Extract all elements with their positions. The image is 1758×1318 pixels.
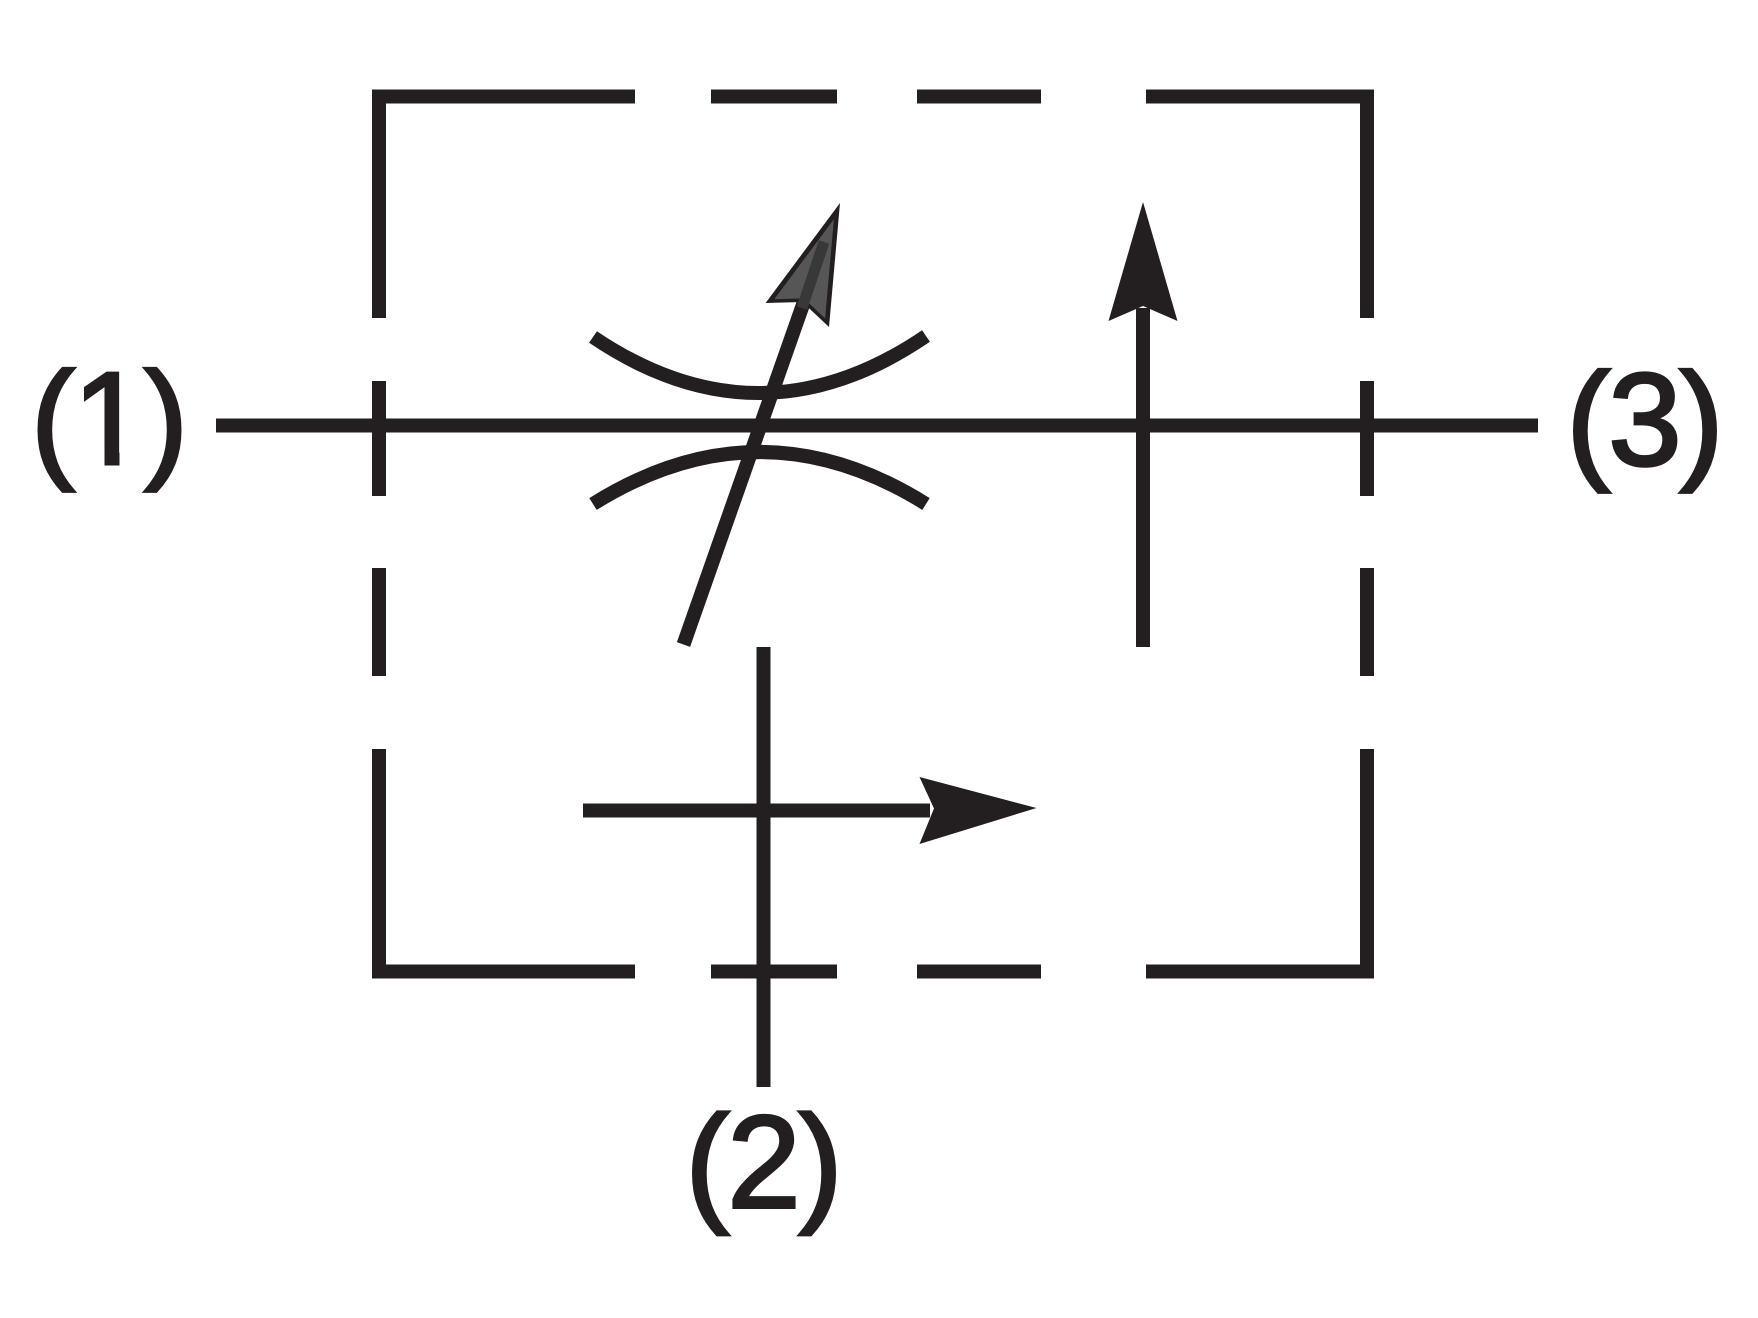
enclosure dashed box: top edge — [372, 90, 1374, 104]
enclosure dashed box: right edge — [1360, 90, 1374, 979]
flow arrow up: shaft — [1136, 308, 1150, 647]
wire: vertical line to port (2) — [757, 647, 771, 1087]
svg-text:(1): (1) — [31, 345, 186, 492]
flow arrow up: head — [1109, 202, 1178, 321]
flow arrow right: head — [920, 777, 1037, 844]
variable restrictor: bottom arc — [593, 452, 926, 504]
adjustment arrow head (gray filled) — [766, 203, 840, 327]
svg-text:(2): (2) — [685, 1089, 840, 1236]
adjustment arrow shaft (diagonal) — [684, 296, 807, 645]
enclosure dashed box: left edge — [372, 90, 386, 979]
wire: main line port (1) to port (3) — [216, 419, 1538, 433]
svg-text:(3): (3) — [1566, 346, 1721, 493]
variable restrictor: top arc — [593, 336, 926, 393]
enclosure dashed box: bottom edge — [372, 965, 1374, 979]
flow arrow right: shaft — [583, 804, 930, 818]
